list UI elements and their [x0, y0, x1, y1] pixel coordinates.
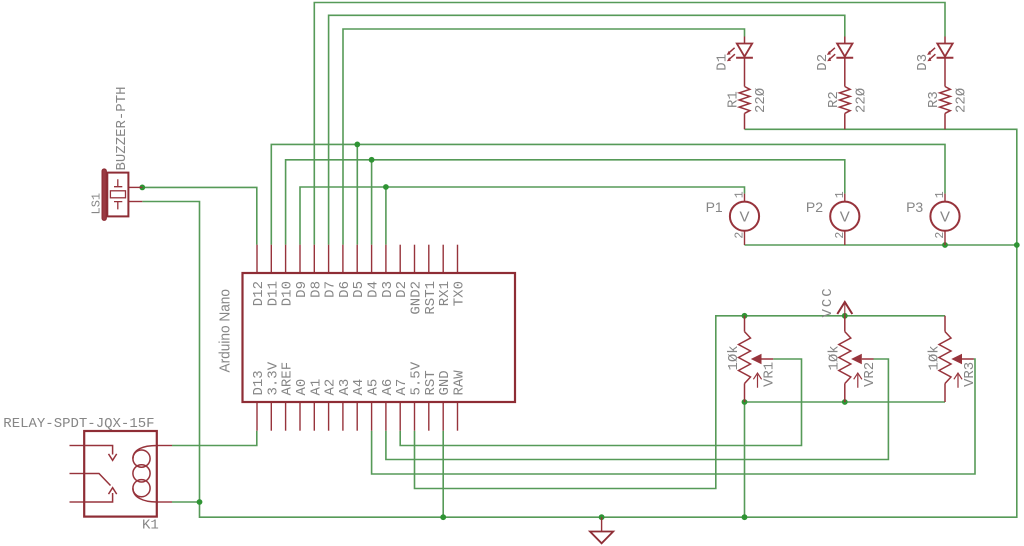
svg-text:VR2: VR2: [862, 362, 878, 387]
svg-text:V: V: [739, 209, 749, 226]
svg-text:R3: R3: [926, 91, 942, 108]
svg-text:22Ø: 22Ø: [853, 88, 869, 113]
svg-text:LS1: LS1: [89, 193, 103, 215]
svg-text:BUZZER-PTH: BUZZER-PTH: [114, 86, 130, 170]
svg-text:2: 2: [834, 232, 847, 239]
svg-text:2: 2: [734, 232, 747, 239]
svg-text:1: 1: [734, 191, 747, 198]
svg-text:R1: R1: [726, 91, 742, 108]
svg-text:1: 1: [834, 191, 847, 198]
svg-text:1Øk: 1Øk: [726, 345, 742, 370]
svg-text:VCC: VCC: [820, 286, 836, 317]
svg-text:V: V: [940, 209, 950, 226]
svg-text:1: 1: [934, 191, 947, 198]
svg-text:1Øk: 1Øk: [826, 345, 842, 370]
svg-text:D1: D1: [715, 54, 731, 71]
svg-text:K1: K1: [142, 518, 159, 534]
svg-text:22Ø: 22Ø: [753, 88, 769, 113]
svg-text:2: 2: [934, 232, 947, 239]
svg-text:VR1: VR1: [762, 362, 778, 387]
svg-text:TX0: TX0: [452, 281, 468, 306]
svg-text:22Ø: 22Ø: [954, 88, 970, 113]
svg-text:1Øk: 1Øk: [927, 345, 943, 370]
svg-text:P1: P1: [706, 199, 723, 215]
svg-text:P3: P3: [906, 199, 923, 215]
svg-text:V: V: [840, 209, 850, 226]
svg-text:D2: D2: [815, 54, 831, 71]
svg-text:R2: R2: [826, 91, 842, 108]
svg-text:VR3: VR3: [962, 362, 978, 387]
svg-text:Arduino Nano: Arduino Nano: [217, 289, 234, 373]
svg-text:D3: D3: [915, 54, 931, 71]
svg-text:RELAY-SPDT-JQX-15F: RELAY-SPDT-JQX-15F: [3, 416, 154, 432]
svg-text:P2: P2: [806, 199, 823, 215]
svg-text:RAW: RAW: [452, 370, 468, 396]
